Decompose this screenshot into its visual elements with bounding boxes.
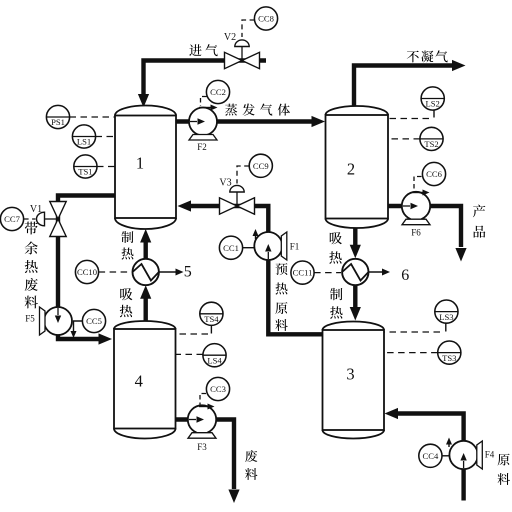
- svg-text:TS1: TS1: [78, 167, 92, 177]
- svg-text:CC10: CC10: [77, 267, 97, 277]
- svg-text:6: 6: [401, 267, 409, 284]
- svg-text:LS4: LS4: [207, 355, 222, 365]
- svg-text:F6: F6: [411, 228, 421, 238]
- svg-text:TS2: TS2: [424, 139, 438, 149]
- svg-text:2: 2: [347, 160, 355, 179]
- svg-text:CC2: CC2: [210, 87, 226, 97]
- svg-text:CC1: CC1: [223, 243, 239, 253]
- svg-text:V2: V2: [224, 32, 236, 43]
- svg-text:CC4: CC4: [423, 451, 439, 461]
- svg-text:CC6: CC6: [426, 169, 442, 179]
- svg-text:V1: V1: [30, 204, 42, 215]
- svg-text:F3: F3: [197, 442, 207, 452]
- svg-text:4: 4: [135, 372, 143, 391]
- svg-text:PS1: PS1: [51, 117, 65, 127]
- svg-text:CC3: CC3: [210, 384, 226, 394]
- svg-text:F2: F2: [197, 142, 207, 152]
- svg-text:TS4: TS4: [204, 314, 219, 324]
- svg-text:CC5: CC5: [86, 316, 102, 326]
- svg-text:LS2: LS2: [426, 99, 440, 109]
- svg-text:1: 1: [136, 154, 144, 173]
- svg-text:TS3: TS3: [442, 353, 456, 363]
- svg-text:LS1: LS1: [77, 137, 91, 147]
- svg-text:3: 3: [346, 365, 354, 384]
- svg-text:F4: F4: [485, 450, 495, 460]
- svg-text:CC8: CC8: [258, 14, 274, 24]
- svg-text:5: 5: [184, 264, 192, 281]
- svg-text:F1: F1: [290, 242, 300, 252]
- svg-text:CC11: CC11: [293, 268, 313, 278]
- svg-text:V3: V3: [219, 178, 231, 189]
- svg-text:CC7: CC7: [4, 214, 20, 224]
- svg-text:F5: F5: [25, 314, 35, 324]
- svg-text:CC9: CC9: [253, 161, 269, 171]
- svg-text:LS3: LS3: [439, 312, 453, 322]
